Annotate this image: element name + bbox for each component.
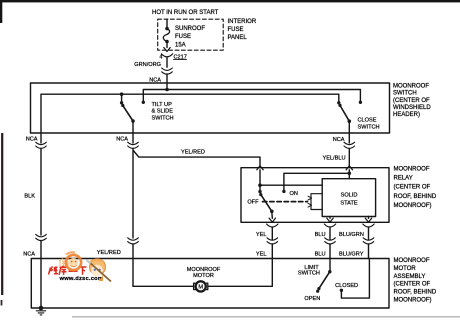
inline connector BLU/GRN [363, 238, 374, 240]
arrow out of fuse panel [164, 48, 170, 52]
wire closed to BLU/GRY [341, 259, 369, 299]
svg-text:SWITCH: SWITCH [393, 91, 417, 97]
inline connector YEL [267, 238, 278, 240]
svg-text:MOTOR: MOTOR [193, 273, 214, 279]
svg-text:GRN/ORG: GRN/ORG [134, 62, 161, 68]
inline connector BLK upper [36, 142, 47, 144]
svg-text:FUSE: FUSE [175, 34, 191, 40]
wire lever to output [271, 211, 274, 218]
wire BLU/GRY into motor box [368, 244, 370, 259]
svg-text:ON: ON [290, 191, 298, 197]
inline connector BLK lower [36, 234, 47, 236]
solid state module U1 [322, 179, 375, 217]
svg-text:SWITCH: SWITCH [358, 124, 380, 130]
watermark left bar [1, 133, 3, 295]
wire tilt output [132, 121, 134, 133]
pin 4 terminal C217 [161, 54, 172, 57]
terminal cup BLU/GRN [363, 224, 374, 227]
node tilt tap [120, 92, 124, 96]
svg-text:RELAY: RELAY [394, 176, 413, 182]
svg-text:FUSE: FUSE [228, 27, 244, 33]
scan frame top [0, 0, 460, 2]
node ground junction [39, 306, 44, 311]
tilt up and slide switch [120, 101, 123, 104]
svg-text:& SLIDE: & SLIDE [152, 109, 174, 115]
svg-text:MOONROOF: MOONROOF [394, 258, 430, 264]
wire ON contact from YEL/BLU [284, 173, 349, 191]
svg-text:PANEL: PANEL [228, 35, 248, 41]
svg-text:15A: 15A [175, 42, 186, 48]
inline connector YEL/RED lower [128, 238, 139, 240]
relay mode switch lever [261, 195, 272, 212]
svg-text:YEL: YEL [256, 232, 267, 238]
svg-text:MOONROOF): MOONROOF) [394, 203, 432, 209]
svg-text:BLU/GRY: BLU/GRY [339, 251, 364, 257]
wire fuse feed [166, 19, 168, 28]
wire YEL/BLU entry [348, 170, 350, 179]
svg-text:STATE: STATE [340, 200, 357, 206]
svg-text:NCA: NCA [333, 137, 345, 143]
svg-text:HOT IN RUN OR START: HOT IN RUN OR START [152, 10, 219, 16]
svg-text:SUNROOF: SUNROOF [175, 26, 205, 32]
wire BLU [329, 227, 331, 239]
svg-text:MOONROOF): MOONROOF) [394, 297, 432, 303]
wire BLU/GRN [368, 227, 370, 239]
watermark dzsc logo [49, 252, 112, 282]
svg-text:(CENTER OF: (CENTER OF [394, 185, 431, 191]
svg-text:(CENTER OF: (CENTER OF [393, 98, 430, 104]
close switch [337, 101, 340, 104]
wire YEL/BLU to relay [348, 149, 350, 167]
inline connector fuse column [162, 68, 173, 70]
svg-text:YEL/RED: YEL/RED [97, 250, 121, 256]
wire close output [348, 121, 350, 133]
svg-text:YEL/RED: YEL/RED [181, 150, 205, 156]
svg-text:WINDSHIELD: WINDSHIELD [393, 105, 431, 111]
wire YEL/RED down [132, 149, 134, 239]
wire BLK upper [40, 133, 42, 143]
svg-text:YEL/BLU: YEL/BLU [322, 155, 345, 161]
label MOONROOF MOTOR ASSEMBLY (CENTER OF ROOF, BEHIND MOONROOF) [394, 258, 437, 303]
inline connector YEL/RED upper [128, 142, 139, 144]
svg-text:HEADER): HEADER) [393, 112, 420, 118]
wire GRN/ORG [166, 57, 168, 67]
svg-text:TILT UP: TILT UP [152, 102, 173, 108]
svg-text:NCA: NCA [23, 251, 35, 257]
svg-text:SWITCH: SWITCH [298, 271, 320, 277]
arrow into relay YEL/RED [257, 166, 263, 170]
svg-text:OPEN: OPEN [304, 296, 320, 302]
terminal cup BLU [324, 224, 335, 227]
wire BLK [40, 149, 42, 236]
svg-text:INTERIOR: INTERIOR [228, 19, 257, 25]
wire bus A feed [143, 90, 360, 103]
moonroof switch box S1 [31, 83, 390, 133]
label MOONROOF SWITCH (CENTER OF WINDSHIELD HEADER) [393, 84, 431, 119]
inline connector BLU [325, 238, 336, 240]
wire relay feed [259, 170, 261, 192]
svg-text:MOONROOF: MOONROOF [187, 267, 221, 273]
wire BLK to ground [40, 241, 42, 309]
svg-text:BLU/GRN: BLU/GRN [339, 232, 364, 238]
ground [36, 311, 45, 315]
node relay feed junction [258, 183, 262, 187]
arrow into relay YEL/BLU [346, 166, 352, 170]
wire YEL/RED upper [132, 133, 134, 143]
wire tap [121, 94, 123, 102]
svg-text:(CENTER OF: (CENTER OF [394, 282, 431, 288]
svg-text:BLU: BLU [315, 251, 326, 257]
watermark separator line [72, 316, 460, 317]
svg-text:ROOF, BEHIND: ROOF, BEHIND [394, 290, 437, 296]
wire motor bus [133, 285, 272, 287]
wire YEL/RED branch to relay [133, 151, 260, 167]
svg-text:OFF: OFF [247, 199, 259, 205]
wire fuse output [166, 42, 168, 48]
wire solid state output BLU [329, 217, 331, 219]
node feed junction [165, 88, 169, 92]
svg-text:www.dzsc.com: www.dzsc.com [59, 276, 104, 282]
label MOONROOF RELAY (CENTER OF ROOF, BEHIND MOONROOF) [394, 167, 437, 209]
relay mode switch OFF contact [258, 190, 261, 193]
svg-text:SOLID: SOLID [341, 192, 358, 198]
svg-text:MOONROOF: MOONROOF [394, 167, 430, 173]
node YEL/BLU junction [348, 172, 352, 176]
svg-text:YEL: YEL [256, 251, 267, 257]
fuse F1 SUNROOF 15A [165, 27, 169, 31]
wire solid state output BLU/GRN [368, 217, 370, 219]
svg-text:BLK: BLK [24, 194, 35, 200]
motor M1 [194, 283, 195, 289]
moonroof motor assembly box [31, 259, 389, 309]
moonroof relay box K1 [241, 168, 389, 223]
dashed actuator link [263, 201, 308, 203]
svg-text:CLOSED: CLOSED [335, 283, 358, 289]
wire BLU into motor box [329, 244, 331, 272]
arrow out of relay YEL [269, 218, 275, 222]
svg-text:4: 4 [159, 54, 162, 60]
wire YEL into motor box [271, 244, 273, 286]
svg-text:SWITCH: SWITCH [152, 116, 174, 122]
interior fuse panel dashed box [158, 19, 224, 50]
wire into switch box [166, 74, 168, 90]
terminal cup YEL [267, 224, 278, 227]
wire feed to solid state [260, 184, 322, 186]
svg-text:MOONROOF: MOONROOF [393, 84, 429, 90]
svg-text:ROOF, BEHIND: ROOF, BEHIND [394, 194, 437, 200]
wire YEL/BLU upper [348, 133, 350, 143]
wire YEL/RED into motor box [132, 244, 134, 286]
svg-text:NCA: NCA [116, 136, 128, 142]
relay ON contact [282, 190, 285, 193]
actuator bracket to solid state [311, 194, 322, 210]
svg-text:NCA: NCA [26, 136, 38, 142]
svg-text:CLOSE: CLOSE [358, 118, 377, 124]
svg-text:ASSEMBLY: ASSEMBLY [394, 274, 426, 280]
svg-text:BLU: BLU [315, 232, 326, 238]
wire bus B [41, 94, 339, 133]
svg-text:M: M [198, 285, 203, 291]
wire YEL [271, 227, 273, 239]
svg-text:MOTOR: MOTOR [394, 266, 417, 272]
inline connector YEL/BLU [344, 142, 355, 144]
